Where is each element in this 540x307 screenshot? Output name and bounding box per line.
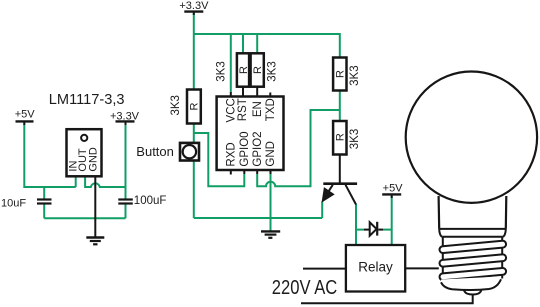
svg-text:R: R [189, 102, 201, 110]
svg-text:+3.3V: +3.3V [110, 110, 140, 122]
svg-text:GND: GND [265, 141, 277, 167]
svg-text:3K3: 3K3 [266, 61, 278, 81]
svg-text:EN: EN [252, 101, 264, 117]
svg-text:R: R [335, 133, 347, 141]
svg-text:3K3: 3K3 [216, 61, 228, 81]
svg-text:GPIO0: GPIO0 [239, 131, 251, 166]
svg-text:3K3: 3K3 [349, 65, 361, 85]
svg-text:Relay: Relay [358, 259, 393, 274]
svg-text:GND: GND [88, 147, 100, 172]
svg-text:100uF: 100uF [134, 195, 167, 207]
svg-text:RXD: RXD [226, 142, 238, 166]
svg-text:Button: Button [136, 144, 174, 159]
svg-text:RST: RST [237, 98, 249, 121]
svg-text:R: R [238, 66, 250, 74]
svg-text:3K3: 3K3 [349, 129, 361, 149]
svg-text:VCC: VCC [226, 98, 238, 122]
svg-text:220V AC: 220V AC [272, 277, 338, 299]
svg-text:LM1117-3,3: LM1117-3,3 [49, 92, 125, 108]
svg-text:+3.3V: +3.3V [179, 0, 209, 12]
svg-text:3K3: 3K3 [170, 95, 182, 115]
svg-text:GPIO2: GPIO2 [252, 131, 264, 166]
svg-text:+5V: +5V [383, 183, 404, 195]
svg-text:TXD: TXD [265, 98, 277, 121]
svg-text:+5V: +5V [15, 108, 36, 120]
svg-text:R: R [252, 66, 264, 74]
svg-text:10uF: 10uF [1, 197, 26, 209]
svg-text:R: R [335, 70, 347, 78]
